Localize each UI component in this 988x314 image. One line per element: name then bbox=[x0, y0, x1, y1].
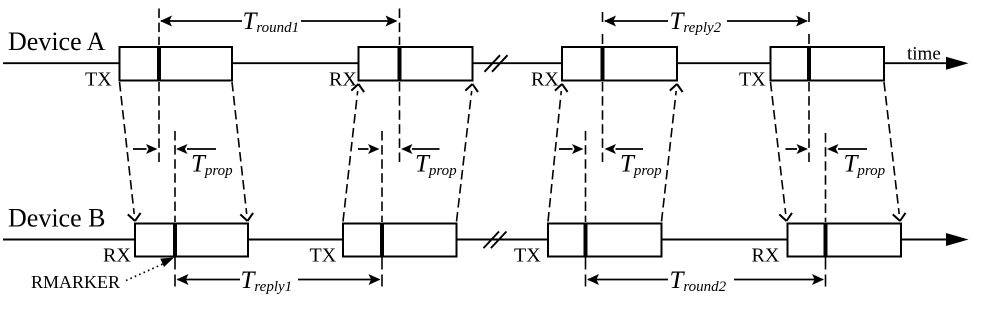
svg-text:RX: RX bbox=[103, 245, 131, 267]
svg-text:TX: TX bbox=[310, 245, 337, 267]
svg-text:RX: RX bbox=[752, 245, 780, 267]
svg-text:RX: RX bbox=[531, 69, 559, 91]
svg-text:Device B: Device B bbox=[8, 204, 105, 233]
svg-text:TX: TX bbox=[85, 69, 112, 91]
svg-text:time: time bbox=[907, 44, 941, 65]
svg-text:RX: RX bbox=[329, 69, 357, 91]
svg-text:Device A: Device A bbox=[8, 27, 106, 56]
svg-text:TX: TX bbox=[739, 69, 766, 91]
svg-text:TX: TX bbox=[514, 245, 541, 267]
svg-text:RMARKER: RMARKER bbox=[31, 272, 120, 292]
